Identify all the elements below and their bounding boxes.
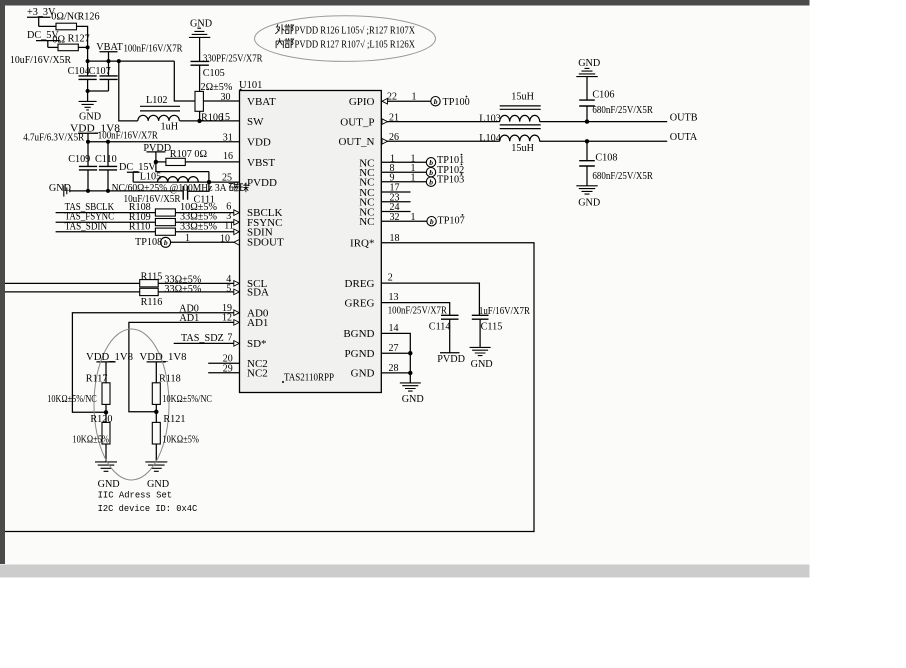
wire L102 branch [119,61,138,121]
node VDD bus C110 [106,140,110,144]
wire TAS_SDZ [174,342,234,344]
pin arrow SBCLK [234,210,240,216]
wire OUTA net to C108 [586,141,588,160]
inductor L105 coil [158,177,199,183]
ground above C106 flipped [576,68,597,76]
svg-text:VDD: VDD [247,137,271,149]
svg-text:15uH: 15uH [511,143,534,154]
svg-text:22: 22 [387,92,397,103]
svg-text:R121: R121 [163,414,185,425]
wire C109 leads [87,142,89,191]
wire NC17 stub [382,191,411,193]
node OUTA C108 [585,139,589,143]
wire TAS_SDIN [56,231,234,233]
svg-text:28: 28 [389,363,399,374]
page background [5,6,810,565]
wire TAS_SBCLK [56,212,234,214]
svg-text:R115: R115 [141,271,163,282]
wire C110 leads [107,142,109,191]
svg-text:15: 15 [220,112,230,123]
power symbol VDD_1V8 a [96,362,115,383]
node gnd rail C109 [86,189,90,193]
wire IRQ* loop [5,243,534,532]
TP100 asterisk mark [466,96,468,98]
node SW R106 [197,119,201,123]
testpoint TP107 [427,217,436,226]
annotation ellipse top [255,16,436,62]
svg-text:NC/60Ω±25% @100MHz 3A: NC/60Ω±25% @100MHz 3A [112,183,228,194]
svg-text:GND: GND [351,368,375,380]
cjk 部 annotation line1 [285,25,294,34]
svg-text:C109: C109 [68,154,90,165]
svg-text:PVDD R127 R107√ ;L105 R126X: PVDD R127 R107√ ;L105 R126X [295,40,416,51]
wire VBAT bus to pin30 [174,61,239,101]
capacitor C106 plates [579,100,595,106]
horizontal scrollbar [0,565,810,578]
svg-text:C105: C105 [203,68,225,79]
svg-text:VBST: VBST [247,157,275,169]
capacitor C114 plates [441,315,459,319]
pin arrow SD* [234,341,240,347]
svg-text:GND: GND [578,197,600,208]
svg-text:10KΩ±5%: 10KΩ±5% [162,435,199,446]
wire L102 to SW pin15 [180,120,240,122]
ground below C108 [576,186,597,194]
resistor R109 [155,219,175,226]
svg-text:25: 25 [222,172,232,183]
wire GND to C106 [586,77,588,101]
wire BGND pin14 [382,333,411,373]
svg-text:TP103: TP103 [437,174,464,185]
resistor R127 [58,44,78,51]
power symbol VDD_1V8 b [147,362,166,383]
svg-text:C106: C106 [592,90,614,101]
svg-text:1: 1 [412,92,417,103]
svg-text:R118: R118 [159,374,181,385]
wire AD1 [129,322,234,411]
node PVDD R107 [154,160,158,164]
power symbol VDD_1V8 [78,133,98,141]
svg-text:C110: C110 [95,154,117,165]
capacitor C110 plates [99,166,117,170]
resistor R110 [155,228,175,235]
resistor R121 [152,422,160,444]
testpoint TP103 [426,177,435,186]
wire TAS_FSYNC [56,221,234,223]
wire GPIO to TP100 [382,100,431,102]
svg-text:GND: GND [578,58,600,69]
node VBAT bus C104 [86,59,90,63]
cjk 外 annotation line1 [276,25,285,34]
svg-text:18: 18 [390,233,400,244]
capacitor C105 plates [191,61,209,65]
pin arrow SDIN [234,229,240,235]
svg-text:DREG: DREG [345,278,375,290]
wire SDA [5,291,234,293]
svg-text:b: b [429,158,433,167]
wire VDD bus pin31 [88,141,240,143]
svg-text:10KΩ±5%/NC: 10KΩ±5%/NC [47,394,97,405]
capacitor C115 plates [472,315,489,319]
wire R117 to R120 [105,404,107,422]
wire R127 to VBAT node [78,46,87,48]
svg-text:2: 2 [388,273,393,284]
wire SCL [5,282,234,284]
svg-text:b: b [164,238,168,247]
svg-text:TAS2110RPP: TAS2110RPP [284,373,334,384]
pin arrow FSYNC [234,219,240,225]
svg-text:1: 1 [411,172,416,183]
ground below R120 [95,462,117,471]
svg-text:10KΩ±5%: 10KΩ±5% [72,435,109,446]
svg-text:100nF/16V/X7R: 100nF/16V/X7R [124,43,183,54]
inductor L103 core bars [500,106,541,109]
wire L104 to OUTA [540,140,668,142]
svg-text:NC2: NC2 [247,368,268,380]
svg-text:VBAT: VBAT [247,96,276,108]
wire C104-C107 ground link [88,91,109,101]
pin arrow AD1 [234,320,240,326]
wire AD0 [72,313,233,413]
wire L103 to OUTB [540,121,668,123]
testpoint TP101 [426,158,435,167]
wire NC2 pin29 [208,372,239,374]
svg-text:32: 32 [390,212,400,223]
svg-text:14: 14 [389,323,399,334]
wire R106 to SW line [199,111,201,121]
node PGND junction [408,351,412,355]
node VBAT-R127 junction [86,45,90,49]
svg-text:33Ω±5%: 33Ω±5% [164,284,201,295]
inductor L102 core bars [140,106,180,111]
wire R118 to R121 [155,404,157,422]
svg-text:TP108: TP108 [135,237,162,248]
resistor R115 [140,280,159,287]
svg-text:12: 12 [222,312,232,323]
svg-text:VDD_1V8: VDD_1V8 [86,352,133,363]
svg-text:R117: R117 [86,374,108,385]
svg-text:100nF/25V/X7R: 100nF/25V/X7R [388,306,447,317]
node GND28 junction [408,371,412,375]
svg-text:OUT_P: OUT_P [340,116,374,128]
svg-text:100nF/16V/X7R: 100nF/16V/X7R [98,131,158,142]
svg-text:7: 7 [227,333,232,344]
wire GND to C105 [199,37,201,61]
svg-text:C107: C107 [89,66,111,77]
ground below C104 C107 [79,101,97,110]
wire PVDD to R107 [156,161,166,163]
wire C107 leads [108,61,110,91]
svg-text:26: 26 [389,132,399,143]
svg-text:b: b [429,168,433,177]
U101 pin1 mark [240,89,242,91]
cjk 珠 L105 value [239,183,248,192]
svg-text:1: 1 [411,212,416,223]
svg-text:AD1: AD1 [247,317,268,329]
svg-text:GND: GND [190,18,212,29]
resistor R107 [166,158,185,165]
pin arrow SDA [234,289,240,295]
wire GND pin28 [382,373,411,383]
cjk 内 annotation line2 [276,39,283,48]
svg-text:15uH: 15uH [511,91,534,102]
pin arrow OUT_P [382,119,388,125]
wire R126 to VBAT node [77,26,88,61]
power symbol +3_3V [27,17,51,26]
svg-text:16: 16 [223,151,233,162]
wire C114 to PVDD [449,319,451,353]
svg-text:PVDD: PVDD [247,177,277,189]
wire C111 to PVDD node [188,172,209,192]
svg-text:b: b [434,97,438,106]
svg-text:PGND: PGND [345,348,375,360]
svg-text:R127: R127 [68,33,90,44]
svg-text:IRQ*: IRQ* [350,238,374,250]
svg-text:33Ω±5%: 33Ω±5% [180,221,217,232]
TP101 asterisk mark [461,154,463,156]
resistor R118 [152,383,160,405]
resistor R116 [140,288,159,295]
wire C106 to OUTB net [586,106,588,122]
svg-text:5: 5 [226,283,231,294]
window left bar [0,6,5,565]
svg-text:GND: GND [79,112,101,123]
pin arrow OUT_N [382,139,388,145]
wire NC8 to TP102 [382,171,427,173]
svg-text:330PF/25V/X7R: 330PF/25V/X7R [203,53,263,64]
power symbol VBAT [100,52,118,61]
svg-text:BGND: BGND [343,328,374,340]
svg-text:1: 1 [185,233,190,244]
power symbol DC_5V [36,41,60,48]
capacitor C108 plates [579,161,595,166]
svg-text:C104: C104 [68,66,90,77]
node VBAT bus C107 [107,59,111,63]
svg-text:4.7uF/6.3V/X5R: 4.7uF/6.3V/X5R [23,133,84,144]
wire PGND pin27 [382,352,411,354]
pin arrow AD0 [234,310,240,316]
svg-text:VDD_1V8: VDD_1V8 [140,352,187,363]
svg-text:GREG: GREG [345,297,375,309]
svg-text:R120: R120 [90,414,112,425]
window top bar [0,0,810,6]
wire L105 line to PVDD pin25 [133,181,239,183]
svg-text:C114: C114 [429,321,451,332]
power symbol PVDD [147,152,166,162]
svg-text:VBAT: VBAT [96,42,123,53]
inductor L104 core bars [500,125,541,129]
svg-text:PVDD: PVDD [437,354,465,365]
wire NC24 stub [382,211,411,213]
wire OUT_N to L104 [382,140,500,142]
svg-text:680nF/25V/X5R: 680nF/25V/X5R [592,105,653,116]
wire R107 to VBST pin16 [185,161,239,163]
wire NC9 to TP103 [382,181,427,183]
node AD1 divider [154,410,158,414]
wire +3.3V to R126 [39,25,56,27]
svg-text:1uF/16V/X7R: 1uF/16V/X7R [479,306,530,317]
svg-text:TP100: TP100 [443,97,470,108]
cjk 磁 L105 value [229,183,238,191]
ground above C105 flipped [189,28,210,37]
svg-text:0Ω: 0Ω [52,34,65,45]
power symbol PVDD at C114 [440,352,460,354]
testpoint TP108 [161,237,171,247]
op-amp U101 body [240,91,382,393]
testpoint TP100 [431,97,440,106]
TP102 asterisk mark [461,164,463,166]
svg-text:GND: GND [471,359,493,370]
wire NC2 pin20 [208,362,239,364]
svg-text:OUT_N: OUT_N [338,136,374,148]
TAS2110RPP ref mark [282,381,284,383]
svg-text:L104: L104 [479,133,501,144]
svg-text:TAS_SDZ: TAS_SDZ [181,333,224,344]
svg-text:R126: R126 [78,12,100,23]
svg-text:R110: R110 [129,222,151,233]
svg-text:L103: L103 [479,113,501,124]
svg-text:10: 10 [220,234,230,245]
node OUTB C106 [585,119,589,123]
resistor R108 [155,209,175,216]
resistor R106 [195,91,203,111]
wire C108 to GND [586,166,588,186]
wire PVDD down to pin25 net [156,162,209,172]
wire ground rail left [70,190,183,192]
node VBAT bus L102 [117,59,121,63]
wire C105 to R106 [199,65,201,91]
capacitor C104 plates [79,76,97,80]
svg-text:1uH: 1uH [161,122,179,133]
svg-text:GND: GND [49,183,71,194]
wire DREG to C115 [382,283,480,315]
wire R121 to GND [155,444,157,462]
svg-text:29: 29 [223,363,233,374]
svg-text:TAS_SDIN: TAS_SDIN [65,221,108,232]
pin arrow SDOUT out [234,240,240,246]
node gnd rail C110 [106,189,110,193]
svg-text:10uF/16V/X5R: 10uF/16V/X5R [10,55,71,66]
svg-text:21: 21 [389,112,399,123]
svg-text:NC: NC [359,216,374,228]
wire VBAT bus [88,60,175,62]
svg-text:PVDD: PVDD [143,143,171,154]
svg-text:GND: GND [402,394,424,405]
svg-text:C115: C115 [481,321,503,332]
wire OUT_P to L103 [382,121,500,123]
svg-text:GPIO: GPIO [349,96,375,108]
svg-text:10KΩ±5%/NC: 10KΩ±5%/NC [162,394,212,405]
svg-text:27: 27 [389,343,399,354]
svg-text:SD*: SD* [247,338,267,350]
svg-text:R116: R116 [141,297,163,308]
wire C115 to GND [479,319,481,347]
node C104 gnd link [86,89,90,93]
svg-text:AD1: AD1 [179,313,199,324]
wire GREG to C114 [382,303,450,316]
inductor L104 coil [500,135,540,141]
wire NC1 to TP101 [382,161,427,163]
ellipse around address resistors [94,329,169,480]
svg-text:C108: C108 [595,152,617,163]
svg-text:680nF/25V/X5R: 680nF/25V/X5R [592,171,653,182]
svg-text:b: b [430,217,434,226]
wire NC32 to TP107 [382,220,427,222]
inductor L102 coil [138,115,180,121]
svg-text:U101: U101 [239,80,262,91]
wire DC_5V to R127 [48,46,58,48]
svg-text:GND: GND [98,479,120,490]
capacitor C109 plates [79,166,97,170]
svg-text:OUTA: OUTA [670,132,698,143]
svg-text:IIC Adress Set: IIC Adress Set [98,490,173,501]
resistor R126 [56,23,77,30]
svg-text:30: 30 [221,92,231,103]
svg-text:I2C device ID: 0x4C: I2C device ID: 0x4C [98,503,198,514]
wire C104 leads [87,61,89,91]
power symbol DC_15V [127,172,140,182]
svg-text:R107 0Ω: R107 0Ω [170,149,208,160]
svg-text:SDA: SDA [247,287,269,299]
TP107 asterisk mark [462,214,464,216]
svg-text:PVDD R126 L105√ ;R127 R107X: PVDD R126 L105√ ;R127 R107X [295,26,416,37]
pin arrow SCL [234,281,240,287]
ground left sideways at rail [64,185,70,196]
svg-text:31: 31 [223,132,233,143]
inductor L103 coil [500,115,540,121]
ground below R121 [145,462,167,471]
ground below C115 [470,347,491,355]
capacitor C107 plates [100,76,118,80]
node AD0 divider [104,410,108,414]
svg-text:L102: L102 [146,95,168,106]
wire NC23 stub [382,201,411,203]
svg-text:OUTB: OUTB [670,112,698,123]
resistor R117 [102,383,110,405]
capacitor C111 plates [183,186,187,200]
node pin25 L105 [207,180,211,184]
ground below pin28 [400,383,421,391]
svg-text:TP107: TP107 [438,215,465,226]
svg-text:L105: L105 [140,171,162,182]
svg-text:SDOUT: SDOUT [247,236,284,248]
cjk 部 annotation line2 [285,39,294,48]
svg-text:SW: SW [247,116,264,128]
wire R120 to GND [105,444,107,462]
TP103 asterisk mark [461,173,463,175]
svg-text:GND: GND [147,479,169,490]
svg-text:11: 11 [224,221,234,232]
resistor R120 [102,422,110,444]
testpoint TP102 [426,168,435,177]
node VDD bus C109 [86,140,90,144]
svg-text:b: b [429,178,433,187]
wire TP108 to SDOUT [171,241,240,243]
pin arrow GPIO in [382,98,388,104]
svg-text:13: 13 [389,292,399,303]
